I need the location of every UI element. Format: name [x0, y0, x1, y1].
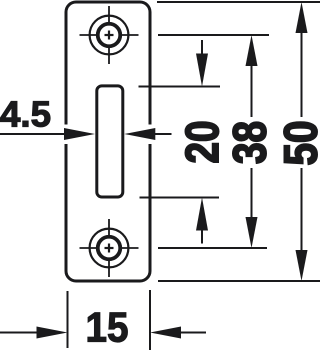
- dim 4.5 tail right: [154, 133, 172, 135]
- top screw hole bold ring: [98, 24, 121, 47]
- plate outline: [66, 2, 150, 281]
- bottom screw hole center plus: [105, 244, 114, 253]
- top screw hole center plus: [105, 31, 114, 40]
- dim 38 up arrow: [246, 35, 258, 66]
- ext line slot bottom: [140, 197, 220, 199]
- ext line plate left edge (15 dim): [67, 291, 69, 348]
- svg-text:20: 20: [176, 121, 228, 164]
- dim 50 lower shaft: [301, 168, 303, 250]
- dim 50 up arrow: [296, 2, 308, 33]
- dim 15 left tail: [0, 332, 37, 334]
- dim 20 down arrow: [196, 54, 208, 87]
- top screw hole crosshair: [80, 6, 139, 64]
- ext line bottom hole center: [158, 247, 267, 249]
- ext line slot top: [139, 86, 221, 88]
- dim 50 upper shaft: [301, 31, 303, 117]
- svg-text:38: 38: [224, 121, 276, 164]
- svg-text:50: 50: [275, 121, 320, 166]
- dim 50 down arrow: [296, 250, 308, 281]
- ext line plate right edge (15 dim): [149, 290, 151, 350]
- dim 15 right tail: [180, 332, 206, 334]
- ext line plate bottom: [158, 280, 320, 282]
- dim 4.5 leader line left: [0, 133, 65, 135]
- dim 4.5 arrow left-pointing: [124, 128, 155, 140]
- dim 38 upper shaft: [251, 64, 253, 117]
- dim 20 up arrow: [196, 198, 208, 231]
- dim 15 left-pointing arrow: [150, 327, 181, 339]
- top screw hole outer circle: [90, 16, 129, 55]
- dim 20 bottom stub: [201, 229, 203, 244]
- dim 4.5 arrow right-pointing: [64, 128, 95, 140]
- bottom screw hole crosshair: [80, 219, 139, 277]
- halo right of slot (white break in plate edge around 4.5 dim arrow): [127, 125, 175, 145]
- dim 15 right-pointing arrow: [37, 327, 68, 339]
- svg-text:15: 15: [86, 304, 129, 350]
- ext line plate top: [157, 1, 320, 3]
- ext line top hole center: [158, 34, 269, 36]
- halo left of slot (white break in plate edge around 4.5 dim arrow): [56, 125, 92, 145]
- dim 20 top stub: [201, 40, 203, 55]
- dim 38 down arrow: [246, 217, 258, 248]
- dim 38 lower shaft: [251, 168, 253, 219]
- bottom screw hole outer circle: [90, 229, 129, 268]
- svg-text:4.5: 4.5: [0, 94, 51, 135]
- slot (latch opening): [97, 86, 123, 197]
- bottom screw hole bold ring: [98, 237, 121, 260]
